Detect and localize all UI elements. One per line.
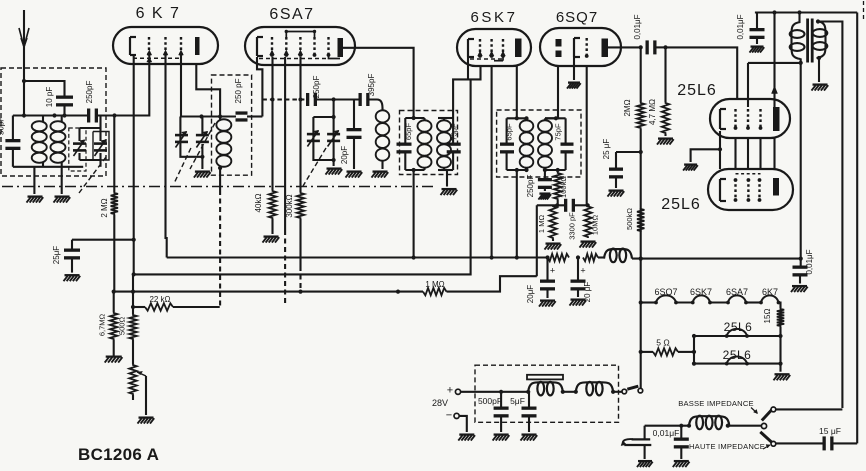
svg-text:500pF: 500pF — [478, 396, 502, 406]
svg-text:40kΩ: 40kΩ — [254, 194, 263, 213]
svg-text:HAUTE IMPEDANCE: HAUTE IMPEDANCE — [689, 442, 765, 451]
svg-text:2 MΩ: 2 MΩ — [100, 198, 109, 217]
svg-text:25L6: 25L6 — [723, 348, 752, 362]
svg-text:22 kΩ: 22 kΩ — [149, 295, 170, 304]
svg-text:28V: 28V — [432, 398, 448, 408]
svg-text:25μF: 25μF — [52, 246, 61, 265]
svg-text:+: + — [580, 266, 585, 276]
svg-text:15 μF: 15 μF — [819, 426, 841, 436]
svg-text:25 μF: 25 μF — [602, 139, 611, 160]
svg-text:BASSE IMPEDANCE: BASSE IMPEDANCE — [678, 399, 754, 408]
svg-text:+: + — [447, 385, 453, 397]
svg-text:25L6: 25L6 — [661, 196, 701, 213]
svg-text:0,01μF: 0,01μF — [736, 14, 745, 39]
svg-text:75pF: 75pF — [554, 123, 563, 141]
svg-text:20pF: 20pF — [340, 146, 349, 164]
svg-text:15Ω: 15Ω — [763, 309, 772, 324]
svg-text:BC1206 A: BC1206 A — [78, 445, 159, 464]
svg-text:250 pF: 250 pF — [234, 78, 243, 103]
svg-text:250pF: 250pF — [85, 81, 94, 104]
svg-text:50pF: 50pF — [0, 117, 6, 135]
svg-text:500kΩ: 500kΩ — [625, 208, 634, 230]
svg-text:4,7 MΩ: 4,7 MΩ — [648, 99, 657, 125]
svg-text:0,01μF: 0,01μF — [653, 428, 680, 438]
svg-text:0,01μF: 0,01μF — [633, 14, 642, 39]
svg-text:395pF: 395pF — [367, 74, 376, 97]
svg-text:6 K 7: 6 K 7 — [136, 5, 181, 22]
svg-text:6,7MΩ: 6,7MΩ — [98, 313, 107, 336]
svg-text:300kΩ: 300kΩ — [285, 194, 294, 217]
svg-text:5μF: 5μF — [510, 396, 525, 406]
svg-text:1 MΩ: 1 MΩ — [537, 215, 546, 234]
svg-text:25L6: 25L6 — [677, 82, 717, 99]
svg-text:6SK7: 6SK7 — [470, 9, 517, 26]
svg-text:250pF: 250pF — [526, 175, 535, 198]
svg-text:6SQ7: 6SQ7 — [556, 9, 598, 26]
svg-text:3300 pF: 3300 pF — [568, 212, 577, 240]
svg-text:−: − — [446, 410, 452, 422]
svg-text:6SA7: 6SA7 — [269, 6, 314, 23]
svg-text:10 pF: 10 pF — [45, 87, 54, 108]
svg-text:20μF: 20μF — [526, 285, 535, 304]
svg-text:0,01μF: 0,01μF — [805, 249, 814, 274]
svg-text:+: + — [550, 266, 555, 276]
svg-text:2MΩ: 2MΩ — [623, 99, 632, 116]
svg-text:500Ω: 500Ω — [118, 317, 127, 336]
